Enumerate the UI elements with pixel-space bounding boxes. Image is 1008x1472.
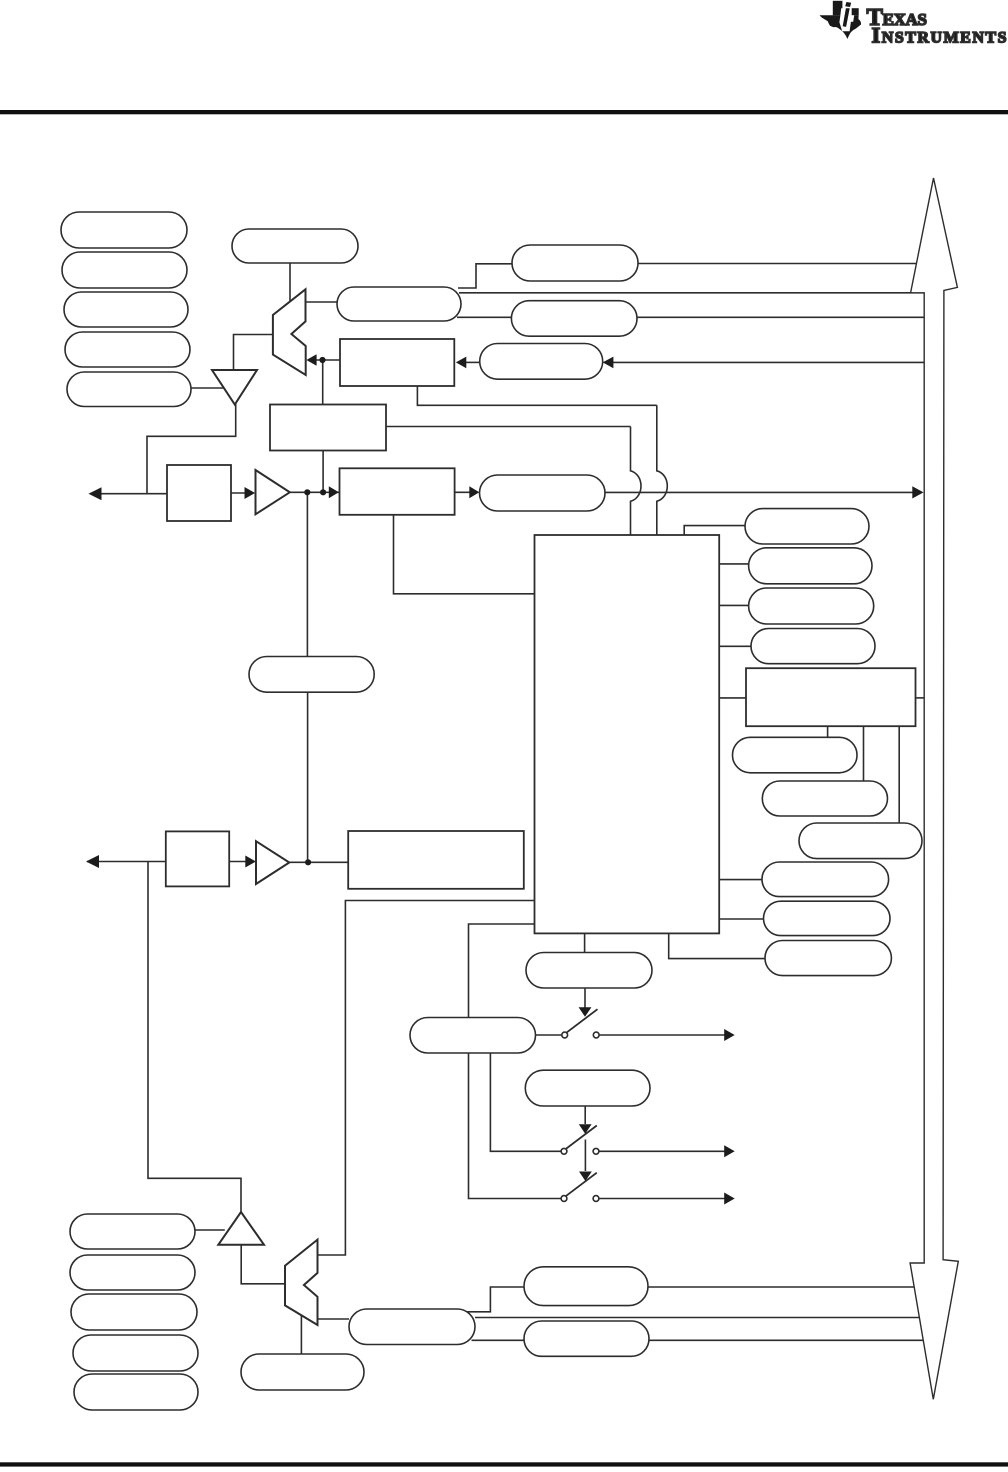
wire: clock module left to mux M2 upper input [318, 901, 535, 1256]
mux M2 [285, 1240, 318, 1325]
output pill O1 [526, 953, 652, 989]
register RA rect [340, 339, 454, 386]
arrowhead: into divider R1 [329, 486, 339, 498]
wire: switch SW1 to output arrow [599, 1034, 726, 1036]
pill SRD [480, 344, 603, 380]
pill P12 [762, 862, 889, 897]
wire: register RA to mux M1 select input [316, 359, 341, 361]
wire: pill DCO to pill D2 [472, 1339, 525, 1341]
pill R3 [749, 588, 874, 624]
wire: bus to pill SRD [613, 361, 924, 363]
wire: divider R1 bottom to clock module left [394, 515, 535, 594]
wire: vertical V2 with hop into clock module [657, 405, 668, 535]
wire: clock module bottom jog to pill P14 [669, 933, 765, 958]
wire: pill P6 to pill SRC [457, 316, 511, 318]
wire: vertical V1 with hop into clock module [631, 427, 642, 536]
Texas Instruments logo bug [820, 1, 862, 39]
register block RC [348, 831, 524, 889]
arrowhead: into register RA right [456, 357, 466, 369]
arrowhead: left output row 1 [89, 487, 102, 500]
input pill L2 [62, 252, 187, 288]
arrowhead: switch SW3 output [724, 1193, 735, 1205]
wire: node A down to control register [322, 360, 324, 405]
wire: pill SRC to bus [637, 316, 924, 318]
junction node B2 dot [320, 489, 326, 495]
wire: inverter U2 output feedback to XT1 line [147, 405, 236, 494]
arrowhead: into pill SRD right [603, 357, 614, 369]
arrowhead: select onto switch SW2 [579, 1124, 592, 1134]
bottom footer rule [0, 1462, 1008, 1466]
wire: buffer U4 output to register block RC [289, 861, 348, 863]
pill Q5 [74, 1374, 198, 1410]
arrowhead: left output row 2 [86, 855, 99, 868]
arrowhead: switch SW1 output [724, 1029, 735, 1041]
junction node B dot [304, 489, 310, 495]
wire: pill D2 to bus slant [649, 1339, 923, 1341]
wire: clock module to pill P12 [719, 879, 762, 881]
switch SW1 lever [567, 1009, 598, 1032]
wire: control register to node B [322, 451, 324, 493]
switch SW2 lever [566, 1126, 597, 1149]
wire: pill SRD to register RA [466, 361, 480, 363]
control register rect [270, 405, 386, 451]
divider R1 rect [340, 468, 455, 515]
switch SW3 lever [566, 1173, 597, 1196]
system bus double arrow [910, 178, 958, 1399]
wire: left output line row 2 [87, 861, 166, 863]
pill DCO [349, 1309, 475, 1345]
wire: buffer U3 output to divider R1 [290, 491, 340, 493]
wire: switch SW2 to output arrow [599, 1150, 726, 1152]
wire: clock module to pill R2 [719, 563, 748, 565]
input pill L3 [64, 292, 188, 327]
pill SWP [410, 1018, 536, 1054]
wire: pill Q1 to buffer U5 [195, 1229, 225, 1231]
wire: square X1 to buffer U3 [231, 492, 248, 494]
arrowhead: switch SW2 output [724, 1145, 735, 1157]
pill X2 [241, 1354, 364, 1390]
wire: clock module to pill P13 [719, 918, 763, 920]
square X2 [166, 831, 229, 886]
wire: pill P6 jog up to pill SRB [458, 264, 512, 288]
arrowhead: select onto switch SW1 [579, 1007, 592, 1017]
pill SRC [511, 301, 637, 337]
wire: pill D1 to bus slant [648, 1286, 915, 1288]
wire: clock module to pill R4 [719, 645, 751, 647]
wire: clock module left to switch SW3 [469, 924, 562, 1199]
inverter U2 [212, 370, 257, 405]
junction node C dot [305, 859, 311, 865]
wire: row 2 feedback down to buffer U5 [148, 862, 241, 1213]
wire: control register to vertical drop V1 [386, 426, 631, 428]
pill Q4 [73, 1335, 198, 1371]
pill SRB [512, 245, 638, 281]
wire: register RA bottom to vertical drop V2 [417, 386, 656, 405]
pill SL [480, 475, 606, 511]
pill B2 [762, 781, 887, 816]
input pill L4 [65, 332, 190, 367]
wire: select line from SW2 to SW3 [584, 1140, 586, 1172]
arrowhead: select onto switch SW3 [579, 1172, 592, 1182]
pill P6 [337, 287, 461, 321]
buffer U3 [256, 470, 290, 514]
arrowhead: into buffer U4 [245, 856, 256, 868]
pill Q1 [70, 1214, 195, 1249]
wire: clock module top to pill R1 [684, 526, 745, 535]
pill B3 [799, 823, 922, 859]
wire: pill SWP bottom to switch SW2 contact [490, 1053, 561, 1151]
switch SW1 contacts [562, 1032, 568, 1038]
wire: oscillator pill to mux M1 input [289, 263, 291, 301]
buffer U4 [256, 841, 289, 884]
wire: divider R1 to pill SL [454, 491, 471, 493]
buffer U5 [218, 1212, 264, 1245]
wire: clock module to register block RB [719, 697, 746, 699]
wire: switch SW3 to output arrow [599, 1198, 726, 1200]
pill Q3 [71, 1294, 197, 1330]
svg-text:Instruments: Instruments [872, 22, 1007, 47]
wire: pill SL to system bus [605, 491, 914, 493]
square X1 [167, 465, 231, 521]
wire: pill M2P select line to switch SW2 [584, 1106, 586, 1124]
wire: pill P6 long line to bus barb [459, 292, 924, 294]
arrowhead: pill SL line into bus [912, 486, 923, 498]
pill P13 [764, 901, 891, 935]
pill D2 [524, 1321, 649, 1356]
input pill L5 [67, 372, 191, 407]
wire: pill O1 select line to switch SW1 [584, 988, 586, 1008]
wire: node B down to calibration pill [306, 492, 308, 656]
arrowhead: into mux M1 select [306, 354, 316, 366]
pill Q2 [70, 1255, 195, 1290]
wire: calibration pill down to node C [307, 692, 309, 862]
clock module main block [535, 535, 720, 933]
wire: left output line row 1 [90, 493, 167, 495]
arrowhead: into buffer U3 [245, 487, 256, 499]
wire: buffer U5 output to mux M2 [241, 1245, 285, 1284]
wire: clock module bottom to output pill O1 [584, 933, 586, 952]
switch SW3 contacts [561, 1196, 567, 1202]
mux M1 [273, 289, 306, 375]
wire: register RB to pill B2 [863, 726, 865, 781]
wire: square X2 to buffer U4 [229, 861, 248, 863]
wire: register RB to pill B1 [827, 726, 829, 737]
wire: clock module to pill R3 [719, 604, 748, 606]
calibration pill [249, 657, 374, 693]
wire: DCO long line to bus [475, 1317, 919, 1319]
arrowhead: into pill SL [469, 486, 479, 498]
wire: pill L5 to inverter U2 input [191, 387, 224, 389]
pill D1 [524, 1267, 648, 1306]
oscillator pill [232, 229, 358, 263]
switch SW2 contacts [561, 1148, 567, 1154]
wire: register block RB to bus [916, 697, 925, 699]
wire: mux M1 upper output to pill P6 [306, 301, 337, 303]
pill R4 [751, 629, 875, 664]
wire: mux M2 output down to pill X2 [300, 1316, 302, 1355]
wire: mux M2 lower input from pill DCO [318, 1318, 350, 1320]
wire: pill SRB to bus arrowhead edge [638, 263, 916, 265]
pill R1 [745, 509, 869, 544]
wire: pill SWP to switch SW1 contact [536, 1034, 562, 1036]
pill B1 [733, 737, 858, 773]
input pill L1 [61, 212, 187, 248]
top header rule [0, 110, 1008, 114]
wire: mux M1 left output to inverter U2 [234, 335, 273, 371]
pill R2 [749, 548, 872, 584]
register block RB [746, 668, 916, 726]
pill P14 [765, 941, 891, 976]
wire: pill DCO jog up to pill D1 [466, 1287, 524, 1312]
junction node A dot [319, 357, 325, 363]
wire: register RB to pill B3 [898, 726, 900, 823]
pill M2P [525, 1070, 650, 1106]
